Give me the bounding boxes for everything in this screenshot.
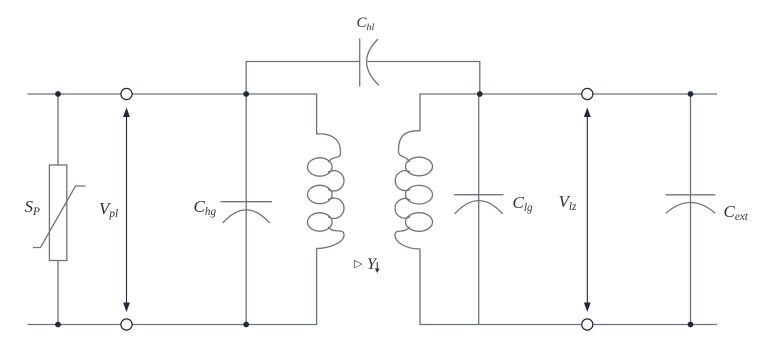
wire bottom rail left (primary) [28,324,317,326]
ratio down arrow [375,262,380,273]
node Cext bottom junction [688,322,694,328]
capacitor Clg [454,194,503,196]
inductor secondary winding [419,94,421,131]
label Clg [513,194,533,211]
terminal Vlz bottom [582,319,593,330]
capacitor Chg [221,201,271,203]
wire Chl branch left [246,62,360,95]
wire Chl branch right [368,62,480,95]
label Chl [357,16,375,31]
node SP bottom junction [55,322,61,328]
voltage arrow Vpl [123,108,130,313]
voltage arrow Vlz [584,108,591,313]
node Chg bottom junction [243,322,249,328]
node Chl/Clg junction [477,91,483,97]
node SP top junction [55,91,61,97]
wire primary coil bottom lead [316,249,318,325]
transformer ratio Y [367,257,376,273]
wire Cext branch [690,94,692,325]
wire Chg branch [245,94,247,325]
wire secondary coil bottom lead [419,249,421,325]
capacitor Chl [359,39,361,86]
wire bottom rail right (secondary) [420,324,717,326]
wire top rail right (secondary) [420,93,717,95]
varistor SP body [49,165,66,261]
label Vpl [99,200,118,217]
node Cext top junction [688,91,694,97]
terminal Vlz top [582,88,593,99]
wire top rail left (primary) [28,93,317,95]
wire SP branch top [57,94,59,165]
terminal Vpl top [121,88,132,99]
node Chg top junction [243,91,249,97]
terminal Vpl bottom [121,319,132,330]
wire Clg branch [478,94,480,325]
varistor SP diagonal [34,186,86,248]
transformer ratio triangle [354,259,362,270]
label Vlz [559,193,577,210]
label Cext [724,203,748,220]
label SP [25,198,40,215]
wire SP branch bottom [57,261,59,325]
label Chg [194,198,217,215]
capacitor Cext [666,194,715,196]
inductor primary winding [316,94,318,134]
